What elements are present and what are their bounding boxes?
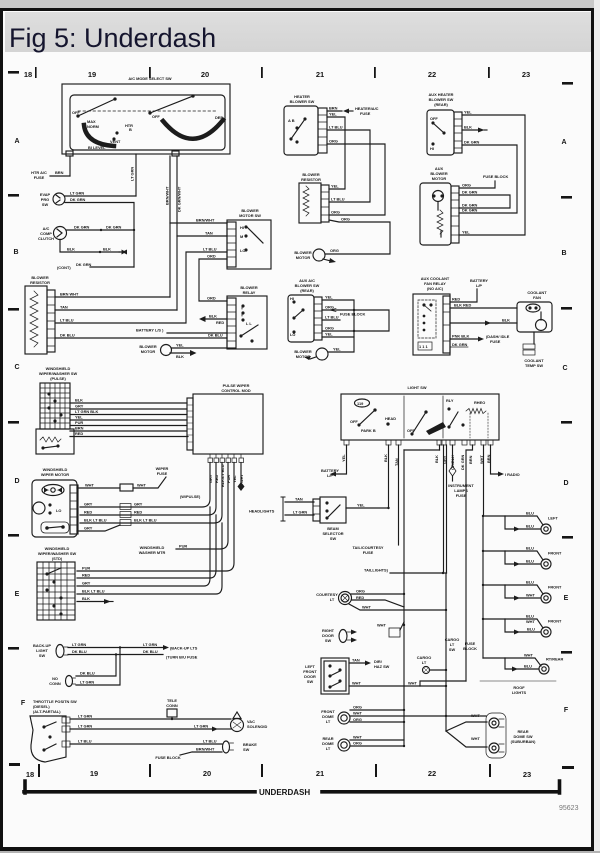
svg-text:DK GRN: DK GRN	[462, 203, 478, 208]
svg-text:SW: SW	[42, 202, 49, 207]
svg-text:FUSE: FUSE	[360, 111, 371, 116]
wire DK GRN evap to vertical	[65, 203, 134, 268]
wire LT GRN no conn riser	[76, 648, 120, 686]
svg-text:BRN WHT: BRN WHT	[60, 292, 79, 297]
wire DK GRN/WHT A/C mode sw down	[176, 156, 178, 310]
svg-text:LT: LT	[326, 719, 331, 724]
fuse block wire ORG aux blower	[459, 174, 508, 188]
svg-text:BLOCK: BLOCK	[463, 646, 477, 651]
wire GRY wiper motor 4th	[77, 525, 120, 531]
svg-text:A: A	[14, 138, 19, 145]
wire YEL beam selector to light sw riser	[346, 503, 390, 510]
svg-text:BLK LT BLU: BLK LT BLU	[134, 518, 157, 523]
right half-row dashes	[562, 82, 573, 85]
svg-text:DK BLU: DK BLU	[143, 649, 158, 654]
wire courtesy riser down to domes	[403, 625, 405, 746]
svg-text:PNK BLK: PNK BLK	[452, 334, 469, 339]
svg-text:(PULSE): (PULSE)	[50, 376, 66, 381]
lamp L3 dome LEFT	[482, 511, 559, 535]
svg-text:WHT: WHT	[353, 711, 362, 716]
wire GRY pulse sw to module	[70, 408, 187, 410]
wire LT BLU heater sw to heater resistor	[327, 130, 370, 202]
resistor R2 BLOWER RESISTOR (heater)	[299, 172, 329, 223]
svg-text:BLK LT BLU: BLK LT BLU	[82, 589, 105, 594]
wire GRY module to wiper motor	[80, 463, 210, 508]
wire GRY light sw down	[446, 445, 448, 573]
svg-text:FRONT: FRONT	[548, 585, 562, 590]
relay K1 BLOWER RELAY	[227, 285, 267, 349]
fuse block riser BRN	[420, 641, 477, 731]
svg-text:GRY: GRY	[75, 404, 84, 409]
svg-text:MOTOR: MOTOR	[432, 176, 447, 181]
wire TAN resistor to blower motor sw	[55, 236, 227, 310]
svg-text:SOLENOID: SOLENOID	[247, 724, 268, 729]
svg-text:LEFT: LEFT	[548, 516, 558, 521]
svg-text:FUSE: FUSE	[456, 493, 467, 498]
wire BLK pulse sw to module	[70, 402, 187, 404]
svg-text:LIGHTS: LIGHTS	[512, 690, 527, 695]
wire ORG heater resistor to blower motor	[325, 220, 390, 254]
svg-text:BRN: BRN	[55, 170, 64, 175]
wire BLK relay to coolant fan motor	[450, 318, 517, 326]
wire TAILLIGHTS	[364, 568, 447, 575]
svg-text:FRONT: FRONT	[548, 551, 562, 556]
svg-text:OFF: OFF	[350, 419, 358, 424]
svg-text:BLK: BLK	[103, 247, 111, 252]
svg-text:HEAD: HEAD	[385, 416, 396, 421]
svg-text:BLK: BLK	[67, 247, 75, 252]
svg-text:RLY: RLY	[446, 398, 454, 403]
svg-text:MOTOR: MOTOR	[141, 349, 156, 354]
lamp L7 dome RT/REAR	[483, 653, 563, 675]
svg-text:YEL: YEL	[329, 112, 337, 117]
svg-text:LT GRN: LT GRN	[194, 724, 208, 729]
svg-text:PUR: PUR	[82, 566, 90, 571]
wire BLK/LT BLU std sw riser	[77, 523, 222, 594]
svg-text:VENT: VENT	[110, 139, 121, 144]
svg-text:ORD: ORD	[207, 254, 216, 259]
lamp feed main vertical	[482, 516, 484, 658]
svg-text:BLK: BLK	[75, 398, 83, 403]
svg-text:GRY: GRY	[84, 526, 93, 531]
svg-text:WIPER MOTOR: WIPER MOTOR	[41, 472, 69, 477]
svg-text:DK GRN: DK GRN	[460, 454, 465, 470]
svg-text:BLK: BLK	[176, 354, 184, 359]
svg-text:ORD: ORD	[207, 296, 216, 301]
svg-text:FUSE: FUSE	[363, 550, 374, 555]
wire DK GRN aux heater sw to aux blower motor	[459, 145, 517, 213]
wire PNK BLK relay to diesel/idle fuse	[450, 334, 510, 348]
lamp L1 COURTESY LT	[316, 592, 351, 605]
svg-text:LT BLU: LT BLU	[60, 318, 74, 323]
svg-text:BLK: BLK	[464, 125, 472, 130]
svg-text:BLK: BLK	[209, 314, 217, 319]
svg-text:DK GRN: DK GRN	[452, 342, 468, 347]
fuse WIPER FUSE	[77, 466, 169, 491]
svg-text:LT BLU: LT BLU	[203, 247, 217, 252]
wire DK GRN clutch feed	[67, 225, 136, 232]
svg-text:YEL: YEL	[325, 332, 333, 337]
wire TAN light sw to tail/courtesy fuse	[398, 445, 400, 545]
wire RED module to wiper motor	[80, 463, 216, 516]
svg-text:WHT: WHT	[526, 593, 535, 598]
svg-text:PUR: PUR	[75, 420, 83, 425]
svg-text:WHT: WHT	[353, 735, 362, 740]
svg-text:LO: LO	[290, 332, 295, 337]
svg-text:M: M	[240, 234, 243, 239]
svg-text:WHT: WHT	[137, 483, 146, 488]
fuse HTR A/C FUSE	[31, 170, 70, 180]
svg-text:(REAR): (REAR)	[434, 102, 448, 107]
svg-text:WHT: WHT	[471, 736, 480, 741]
wire vertical labels below light sw	[341, 454, 491, 470]
svg-text:I RADIO: I RADIO	[505, 472, 520, 477]
svg-text:RED: RED	[84, 510, 92, 515]
svg-text:LT: LT	[422, 660, 427, 665]
svg-text:20: 20	[203, 769, 211, 778]
svg-text:WHT: WHT	[85, 483, 94, 488]
wire BRN/WHT A/C mode sw down	[169, 156, 171, 297]
svg-text:A/C MODE SELECT SW: A/C MODE SELECT SW	[128, 76, 172, 81]
wire TAN left door sw to dir/haz	[349, 658, 390, 670]
wire WHT right door sw to riser	[377, 622, 405, 637]
switch S9 WINDSHIELD WIPER/WASHER SW (STD)	[37, 546, 76, 620]
switch S7 COOLANT TEMP SW	[523, 332, 544, 368]
svg-text:B: B	[13, 249, 18, 256]
svg-text:MOTOR SW: MOTOR SW	[239, 213, 261, 218]
svg-text:F: F	[21, 700, 26, 707]
svg-text:119: 119	[357, 401, 364, 406]
svg-text:1 1 1: 1 1 1	[419, 344, 428, 349]
svg-text:BRN: BRN	[468, 455, 473, 464]
svg-text:TAN: TAN	[295, 497, 303, 502]
wire BRN light sw to I RADIO	[491, 445, 520, 477]
svg-text:HI: HI	[290, 296, 294, 301]
connector NO CONN	[49, 676, 75, 687]
svg-text:RED: RED	[452, 297, 460, 302]
bottom ruler dashes and ticks	[9, 763, 20, 766]
svg-text:YEL: YEL	[462, 230, 470, 235]
wire RED pulse sw to module	[70, 436, 188, 438]
svg-text:BLU: BLU	[524, 664, 532, 669]
svg-text:BLU: BLU	[526, 511, 534, 516]
switch S12 RIGHT DOOR SW	[322, 628, 357, 643]
motor M6 WINDSHIELD WASHER MTR	[139, 544, 188, 556]
switch S8 WINDSHIELD WIPER/WASHER SW (PULSE)	[36, 366, 77, 454]
lamp L4 dome FRONT 1	[482, 546, 562, 570]
wire BLK aux heater sw ground	[462, 125, 487, 133]
svg-text:FUSE BLOCK: FUSE BLOCK	[483, 174, 508, 179]
svg-text:L L: L L	[246, 321, 252, 326]
wire YEL aux a/c sw loop	[322, 300, 354, 337]
wire BLK light sw down	[388, 445, 390, 508]
fuse TAIL/COURTESY FUSE	[352, 545, 383, 555]
svg-text:TAN: TAN	[60, 305, 68, 310]
wire A/C mode sw to HTR A/C fuse	[69, 156, 71, 176]
svg-text:RHEO: RHEO	[474, 400, 485, 405]
svg-text:RED: RED	[82, 573, 90, 578]
svg-text:DK GRN: DK GRN	[106, 225, 122, 230]
svg-text:DK GRN: DK GRN	[464, 140, 480, 145]
svg-text:23: 23	[522, 70, 530, 79]
svg-text:20: 20	[201, 70, 209, 79]
wire PUR pulse sw to module	[70, 425, 187, 427]
svg-text:SW: SW	[39, 653, 46, 658]
svg-text:TAILLIGHTS): TAILLIGHTS)	[364, 568, 389, 573]
svg-text:FUSE BLOCK: FUSE BLOCK	[155, 755, 180, 760]
svg-text:CONTROL MOD: CONTROL MOD	[221, 388, 251, 393]
svg-text:ORG: ORG	[330, 248, 339, 253]
svg-text:RELAY: RELAY	[243, 290, 256, 295]
svg-text:COURTESY: COURTESY	[316, 592, 338, 597]
svg-text:YEL: YEL	[341, 454, 346, 462]
clutch coil A/C COMP CLUTCH	[38, 226, 67, 241]
svg-text:RED: RED	[75, 431, 83, 436]
wire BLK RED relay to coolant fan	[450, 307, 517, 309]
svg-text:21: 21	[316, 70, 324, 79]
motor M4 BLOWER MOTOR (aux a/c)	[294, 337, 354, 360]
svg-text:BRN: BRN	[75, 426, 84, 431]
svg-text:LO: LO	[56, 508, 61, 513]
svg-text:WHT: WHT	[408, 681, 417, 686]
svg-text:B: B	[129, 127, 132, 132]
svg-text:HAZ SW: HAZ SW	[374, 664, 390, 669]
wire WHT module arrow stub	[238, 463, 245, 492]
lamp L8 FRONT DOME LT	[321, 705, 486, 725]
svg-text:BLK: BLK	[502, 318, 510, 323]
wire LT BLU aux a/c sw stub	[322, 319, 340, 321]
svg-text:ORG: ORG	[325, 326, 334, 331]
resistor R1 BLOWER RESISTOR	[25, 275, 55, 354]
wire GRY labels wiper motor	[84, 502, 143, 510]
lamp L6 dome FRONT 3	[482, 614, 562, 638]
svg-text:(CONT): (CONT)	[57, 265, 71, 270]
svg-text:22: 22	[428, 70, 436, 79]
connector HEADLIGHTS feed	[249, 497, 314, 522]
svg-text:ORG: ORG	[353, 741, 362, 746]
svg-text:BLK: BLK	[383, 454, 388, 462]
svg-text:GRY: GRY	[134, 502, 143, 507]
wire DK GRN aux blower loop	[459, 190, 510, 209]
relay K2 AUX COOLANT FAN RELAY (NO A/C)	[413, 276, 450, 355]
wire LT GRN A/C mode sw to evap prg sw	[135, 154, 137, 196]
fan COOLANT FAN	[517, 290, 552, 332]
svg-text:CONN: CONN	[166, 703, 178, 708]
svg-text:ORG: ORG	[341, 217, 350, 222]
module U1 PULSE WIPER CONTROL MOD	[187, 383, 263, 463]
svg-text:ORG: ORG	[356, 589, 365, 594]
svg-text:LIGHT SW: LIGHT SW	[407, 385, 426, 390]
svg-text:(ALT-PARTIAL): (ALT-PARTIAL)	[33, 709, 61, 714]
ground wire BLK std sw	[77, 596, 113, 604]
svg-text:18: 18	[24, 70, 32, 79]
svg-text:A: A	[561, 139, 566, 146]
svg-text:LT BLU: LT BLU	[203, 739, 217, 744]
switch S17 THROTTLE POSITN SW (DIESEL)	[30, 699, 77, 762]
svg-text:MOTOR: MOTOR	[296, 255, 311, 260]
wire BRN heater sw to heater fuse	[327, 106, 379, 117]
svg-text:HI: HI	[240, 225, 244, 230]
motor M2 BLOWER MOTOR (heater)	[294, 248, 339, 263]
wire LT GRN back-up sw to back-up lts	[68, 642, 198, 651]
svg-text:YEL: YEL	[75, 415, 83, 420]
svg-text:RESISTOR: RESISTOR	[301, 177, 321, 182]
svg-text:SW: SW	[325, 638, 332, 643]
svg-text:OFF: OFF	[72, 110, 80, 115]
svg-text:(BACK-UP LTS: (BACK-UP LTS	[170, 646, 198, 651]
svg-text:OFF: OFF	[152, 114, 160, 119]
svg-text:(W/PULSE): (W/PULSE)	[180, 494, 201, 499]
svg-text:YEL: YEL	[333, 347, 341, 352]
wire RED courtesy	[352, 595, 405, 607]
svg-text:LT BLU: LT BLU	[331, 197, 345, 202]
wire BLK light sw to courtesy circuit	[404, 445, 440, 625]
svg-text:ORG: ORG	[462, 183, 471, 188]
switch S16 BACK-UP LIGHT SW	[33, 643, 68, 658]
svg-text:ORG: ORG	[329, 139, 338, 144]
svg-text:LT BLU: LT BLU	[78, 739, 92, 744]
svg-text:22: 22	[428, 769, 436, 778]
svg-text:CLUTCH: CLUTCH	[38, 236, 54, 241]
svg-text:YEL: YEL	[331, 184, 339, 189]
svg-text:GRY: GRY	[82, 581, 91, 586]
svg-text:B: B	[561, 250, 566, 257]
svg-text:(TURN B/U FUSE: (TURN B/U FUSE	[166, 655, 198, 660]
svg-text:WHT: WHT	[526, 619, 535, 624]
svg-text:ORG: ORG	[325, 305, 334, 310]
wire BATTERY L/S to blower relay	[136, 320, 227, 333]
switch S11 BEAM SELECTOR SW	[313, 497, 346, 541]
svg-text:FUSE: FUSE	[34, 175, 45, 180]
svg-text:LT GRN: LT GRN	[143, 642, 157, 647]
svg-text:(STD): (STD)	[52, 556, 63, 561]
wire LT GRN evap to A/C mode sw	[65, 195, 136, 197]
svg-text:YEL: YEL	[176, 343, 184, 348]
switch S5 AUX HEATER BLOWER SW (REAR)	[427, 92, 462, 155]
svg-text:L/P: L/P	[476, 283, 482, 288]
svg-text:DK GRN: DK GRN	[70, 197, 86, 202]
wire GRY std sw riser	[77, 507, 210, 586]
svg-text:SW: SW	[330, 536, 337, 541]
svg-text:BLOWER SW: BLOWER SW	[290, 99, 315, 104]
wire WHT left door sw to cargo riser	[349, 681, 447, 688]
svg-text:BLK RED: BLK RED	[454, 303, 471, 308]
wire BRN pulse sw to module	[70, 430, 187, 432]
switch S18 BRAKE SW	[155, 741, 257, 760]
switch S4 HEATER BLOWER SW	[284, 94, 327, 155]
motor M5 WINDSHIELD WIPER MOTOR	[32, 467, 78, 537]
svg-text:CONN: CONN	[49, 681, 61, 686]
svg-text:HEADLIGHTS: HEADLIGHTS	[249, 509, 275, 514]
wire LT BLU resistor to blower motor sw	[55, 252, 227, 323]
lamp L9 REAR DOME LT	[322, 735, 405, 752]
svg-text:WHT: WHT	[471, 713, 480, 718]
switch S3 BLOWER MOTOR SW	[227, 208, 271, 269]
svg-text:F: F	[564, 707, 569, 714]
svg-text:SW: SW	[243, 747, 250, 752]
wire BRN/WHT resistor to blower motor sw	[55, 223, 227, 297]
svg-text:BLU: BLU	[526, 614, 534, 619]
svg-text:23: 23	[523, 770, 531, 779]
svg-text:LT: LT	[326, 746, 331, 751]
svg-text:ORG: ORG	[353, 717, 362, 722]
svg-text:WHT: WHT	[352, 681, 361, 686]
wire LT GRN throttle sw to tele conn and solenoid	[70, 714, 231, 721]
battery feed BATTERY L/P	[450, 278, 488, 302]
svg-text:HI: HI	[430, 146, 434, 151]
svg-text:LT: LT	[330, 597, 335, 602]
wire DK GRN (CONT)	[57, 262, 134, 270]
switch S15 REAR DOME SW (SUBURBAN)	[446, 713, 536, 758]
wire ORG aux a/c sw fuse block loop	[322, 305, 389, 333]
ground arrow BLK into blower relay	[199, 314, 227, 323]
wire PUR module to washer motor and std sw	[176, 463, 228, 550]
switch S6 AUX A/C BLOWER SW (REAR)	[288, 278, 322, 342]
svg-text:DK GRN: DK GRN	[76, 262, 92, 267]
svg-text:C: C	[562, 365, 567, 372]
svg-text:RED: RED	[356, 595, 364, 600]
svg-text:RED: RED	[216, 320, 224, 325]
svg-text:ORG: ORG	[331, 210, 340, 215]
svg-text:BLK: BLK	[434, 455, 439, 463]
switch S10 LIGHT SW	[341, 385, 499, 440]
wire LT GRN throttle sw to vac solenoid	[70, 724, 231, 732]
svg-text:BLU: BLU	[527, 627, 535, 632]
svg-text:BRN/WHT: BRN/WHT	[165, 186, 170, 205]
svg-text:WHT: WHT	[362, 605, 371, 610]
wire WHT courtesy to cargo riser	[349, 604, 447, 611]
svg-text:TAN: TAN	[205, 231, 213, 236]
svg-text:D: D	[14, 478, 19, 485]
top ruler dashes and ticks	[8, 71, 19, 74]
label ROOF LIGHTS	[480, 681, 556, 695]
svg-text:YEL: YEL	[464, 110, 472, 115]
wire BLK clutch ground	[60, 240, 127, 255]
svg-text:19: 19	[88, 70, 96, 79]
svg-text:LT GRN: LT GRN	[78, 724, 92, 729]
svg-text:NORM: NORM	[87, 124, 99, 129]
svg-text:18: 18	[26, 770, 34, 779]
motor M3 AUX BLOWER MOTOR	[420, 166, 459, 245]
wire YEL module down to E-row	[77, 463, 234, 572]
wire YEL heater sw to heater resistor	[327, 117, 345, 189]
svg-text:LT BLU: LT BLU	[325, 315, 339, 320]
svg-text:FUSE: FUSE	[490, 339, 501, 344]
fuse INSTRUMENT LAMPS FUSE on DK GRN	[448, 445, 474, 498]
svg-text:BLU: BLU	[526, 546, 534, 551]
svg-text:LT BLU: LT BLU	[329, 125, 343, 130]
wire bundle labels below module	[208, 464, 244, 487]
svg-text:ORG: ORG	[353, 705, 362, 710]
wire YEL light sw to battery	[321, 445, 346, 478]
svg-text:BRN/WHT: BRN/WHT	[196, 218, 215, 223]
svg-text:DK GRN: DK GRN	[462, 190, 478, 195]
svg-text:SW: SW	[307, 679, 314, 684]
svg-text:19: 19	[90, 769, 98, 778]
svg-text:WHT: WHT	[524, 653, 533, 658]
svg-text:FAN: FAN	[533, 295, 541, 300]
wire BRN light sw to fuse block cargo	[466, 445, 473, 681]
underdash bracket	[24, 781, 560, 793]
svg-text:LT GRN: LT GRN	[78, 714, 92, 719]
svg-text:DK BLU: DK BLU	[60, 333, 75, 338]
svg-text:TAN: TAN	[352, 658, 360, 663]
switch S1 A/C MODE SELECT SW	[62, 76, 230, 156]
svg-text:YEL: YEL	[357, 503, 365, 508]
svg-text:LT GRN: LT GRN	[70, 191, 84, 196]
svg-text:TEMP SW: TEMP SW	[525, 363, 543, 368]
wire ORG blower motor sw to blower relay	[199, 259, 227, 301]
